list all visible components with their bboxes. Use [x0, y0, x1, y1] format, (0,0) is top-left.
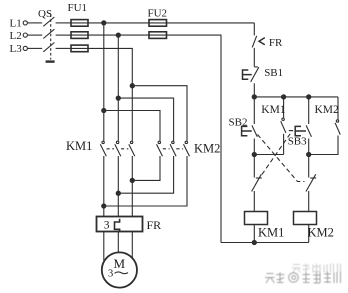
- node junction L2/A2: [116, 33, 120, 37]
- wire KM2 coil to bottom rail: [308, 225, 310, 243]
- contact SB2 NC interlock (right): [306, 174, 316, 211]
- svg-text:SB1: SB1: [264, 67, 283, 79]
- switch QS pole 2 blade: [43, 29, 54, 38]
- svg-text:KM2: KM2: [308, 226, 334, 240]
- contact KM2 auxiliary NO (self hold): [309, 97, 341, 155]
- motor tilde: [115, 272, 129, 274]
- node junction top rail KM1aux: [282, 95, 286, 99]
- node junction top rail SB3: [307, 95, 311, 99]
- contactor KM2 main pole 3: [184, 141, 190, 156]
- svg-text:KM2: KM2: [315, 104, 340, 116]
- fuse FU1 element 1: [71, 20, 88, 27]
- wire phase A1 vertical: [103, 23, 105, 141]
- wire L2 to QS: [28, 34, 43, 36]
- thermal relay FR heater symbol: [115, 219, 120, 233]
- thermal relay FR heater box: [97, 217, 143, 232]
- wire bottom rail: [221, 242, 309, 244]
- switch QS linkage dashed: [50, 15, 52, 60]
- wire top rail: [254, 96, 338, 98]
- fuse FU1 element 2: [71, 32, 88, 39]
- wire KM1 coil to bottom rail: [253, 225, 255, 243]
- wire down to left NC: [253, 155, 255, 178]
- wire KM1 pole3 down to FR box: [131, 156, 133, 217]
- node junction A3 to KM2 feed: [130, 84, 134, 88]
- node junction bottom rail: [252, 240, 256, 244]
- contactor KM2 main pole 1: [157, 141, 163, 156]
- contactor KM1 main pole 3: [129, 141, 135, 156]
- svg-text:L3: L3: [10, 43, 23, 55]
- control: wire down from L1 line: [253, 23, 255, 36]
- node junction A1 to KM2 feed: [102, 108, 106, 112]
- wire KM2 pole3 bottom crossover: [104, 156, 187, 206]
- svg-text:3: 3: [108, 269, 113, 280]
- coil KM1: [245, 212, 268, 225]
- node junction A2 out: [116, 191, 120, 195]
- wire FR box to motor mid: [117, 232, 119, 253]
- svg-text:M: M: [114, 256, 126, 271]
- contactor KM2 main pole 2: [170, 141, 176, 156]
- wire KM1 pole2 down to FR box: [117, 156, 119, 217]
- wire FU2-1 to control drop: [167, 22, 255, 24]
- motor M circle: [102, 252, 137, 287]
- node junction A2 to KM2 feed: [116, 96, 120, 100]
- switch QS pole 1 blade: [43, 17, 54, 26]
- switch QS linkage end bar: [46, 60, 55, 62]
- wire FU1 row1 to FU2 and control corner: [88, 22, 149, 24]
- node L3 terminal: [23, 46, 27, 50]
- svg-text:KM1: KM1: [258, 226, 284, 240]
- contact KM1 auxiliary NO (self hold): [281, 97, 286, 155]
- svg-text:FR: FR: [269, 37, 283, 49]
- coil KM2: [294, 212, 317, 225]
- wire FR box to motor right: [131, 232, 133, 258]
- wire L1 to QS: [28, 22, 43, 24]
- wire FU1 row2 to FU2-2: [88, 34, 149, 36]
- fuse FU2 element 2: [149, 32, 167, 39]
- node junction mid rail left: [252, 152, 256, 156]
- wire FU1 row3 corner down: [88, 48, 132, 85]
- node junction A3 out: [130, 178, 134, 182]
- svg-text:KM1: KM1: [261, 104, 286, 116]
- fuse FU1 element 3: [71, 45, 88, 52]
- wire KM2 pole1 bottom crossover: [132, 156, 160, 180]
- wire QS to FU1 row2: [56, 34, 71, 36]
- wire phase A3 vertical: [131, 86, 133, 141]
- svg-text:3: 3: [104, 220, 110, 232]
- wire KM2 pole2 bottom crossover: [118, 156, 173, 193]
- wire A3 to KM2 pole3 top: [132, 86, 187, 141]
- svg-text:SB3: SB3: [288, 136, 307, 148]
- wire KM1 pole1 down to FR box: [103, 156, 105, 217]
- svg-text:SB2: SB2: [229, 116, 248, 128]
- button SB3 NO start-reverse: [295, 97, 311, 155]
- wire down to right NC: [308, 155, 310, 178]
- svg-text:FU1: FU1: [68, 2, 88, 14]
- contactor KM2 pole linkage dashes: [163, 148, 183, 150]
- wire L3 to QS: [28, 47, 43, 49]
- svg-text:L2: L2: [10, 30, 22, 42]
- node L1 terminal: [23, 21, 27, 25]
- contact SB3 NC interlock (left): [252, 174, 262, 211]
- svg-text:FU2: FU2: [148, 8, 168, 20]
- svg-text:QS: QS: [38, 8, 52, 20]
- contact FR NC (thermal relay contact): [252, 36, 265, 67]
- contactor KM1 main pole 1: [100, 141, 106, 156]
- wire rail to SB2: [253, 97, 255, 124]
- svg-text:L1: L1: [10, 17, 22, 29]
- node junction L1/A1: [102, 21, 106, 25]
- contactor KM1 pole linkage dashes: [107, 148, 129, 150]
- wire QS to FU1 row1: [56, 22, 71, 24]
- wire mid rail left segment: [254, 154, 283, 156]
- svg-text:KM1: KM1: [66, 139, 92, 153]
- node junction mid rail right: [307, 152, 311, 156]
- fuse FU2 element 1: [149, 20, 167, 27]
- node junction A1 out: [102, 204, 106, 208]
- svg-text:KM2: KM2: [194, 142, 220, 156]
- switch QS pole 3 blade: [43, 43, 54, 52]
- wire phase A2 vertical: [117, 35, 119, 141]
- svg-text:FR: FR: [147, 218, 162, 232]
- contactor KM1 main pole 2: [115, 141, 121, 156]
- wire A2 to KM2 pole2 top: [118, 98, 173, 141]
- node L2 terminal: [23, 33, 27, 37]
- wire QS to FU1 row3: [56, 47, 71, 49]
- dashed linkage SB3 to left NC: [261, 131, 293, 177]
- wire FU2-2 to right control corner: [167, 35, 222, 242]
- wire FR box to motor left: [103, 232, 105, 261]
- button SB2 NO start-forward: [242, 125, 258, 154]
- dashed linkage SB2 to right NC: [258, 135, 305, 182]
- wire A1 to KM2 pole1 top: [104, 111, 160, 141]
- button SB1 NC stop: [243, 67, 259, 97]
- node junction top rail left: [252, 95, 256, 99]
